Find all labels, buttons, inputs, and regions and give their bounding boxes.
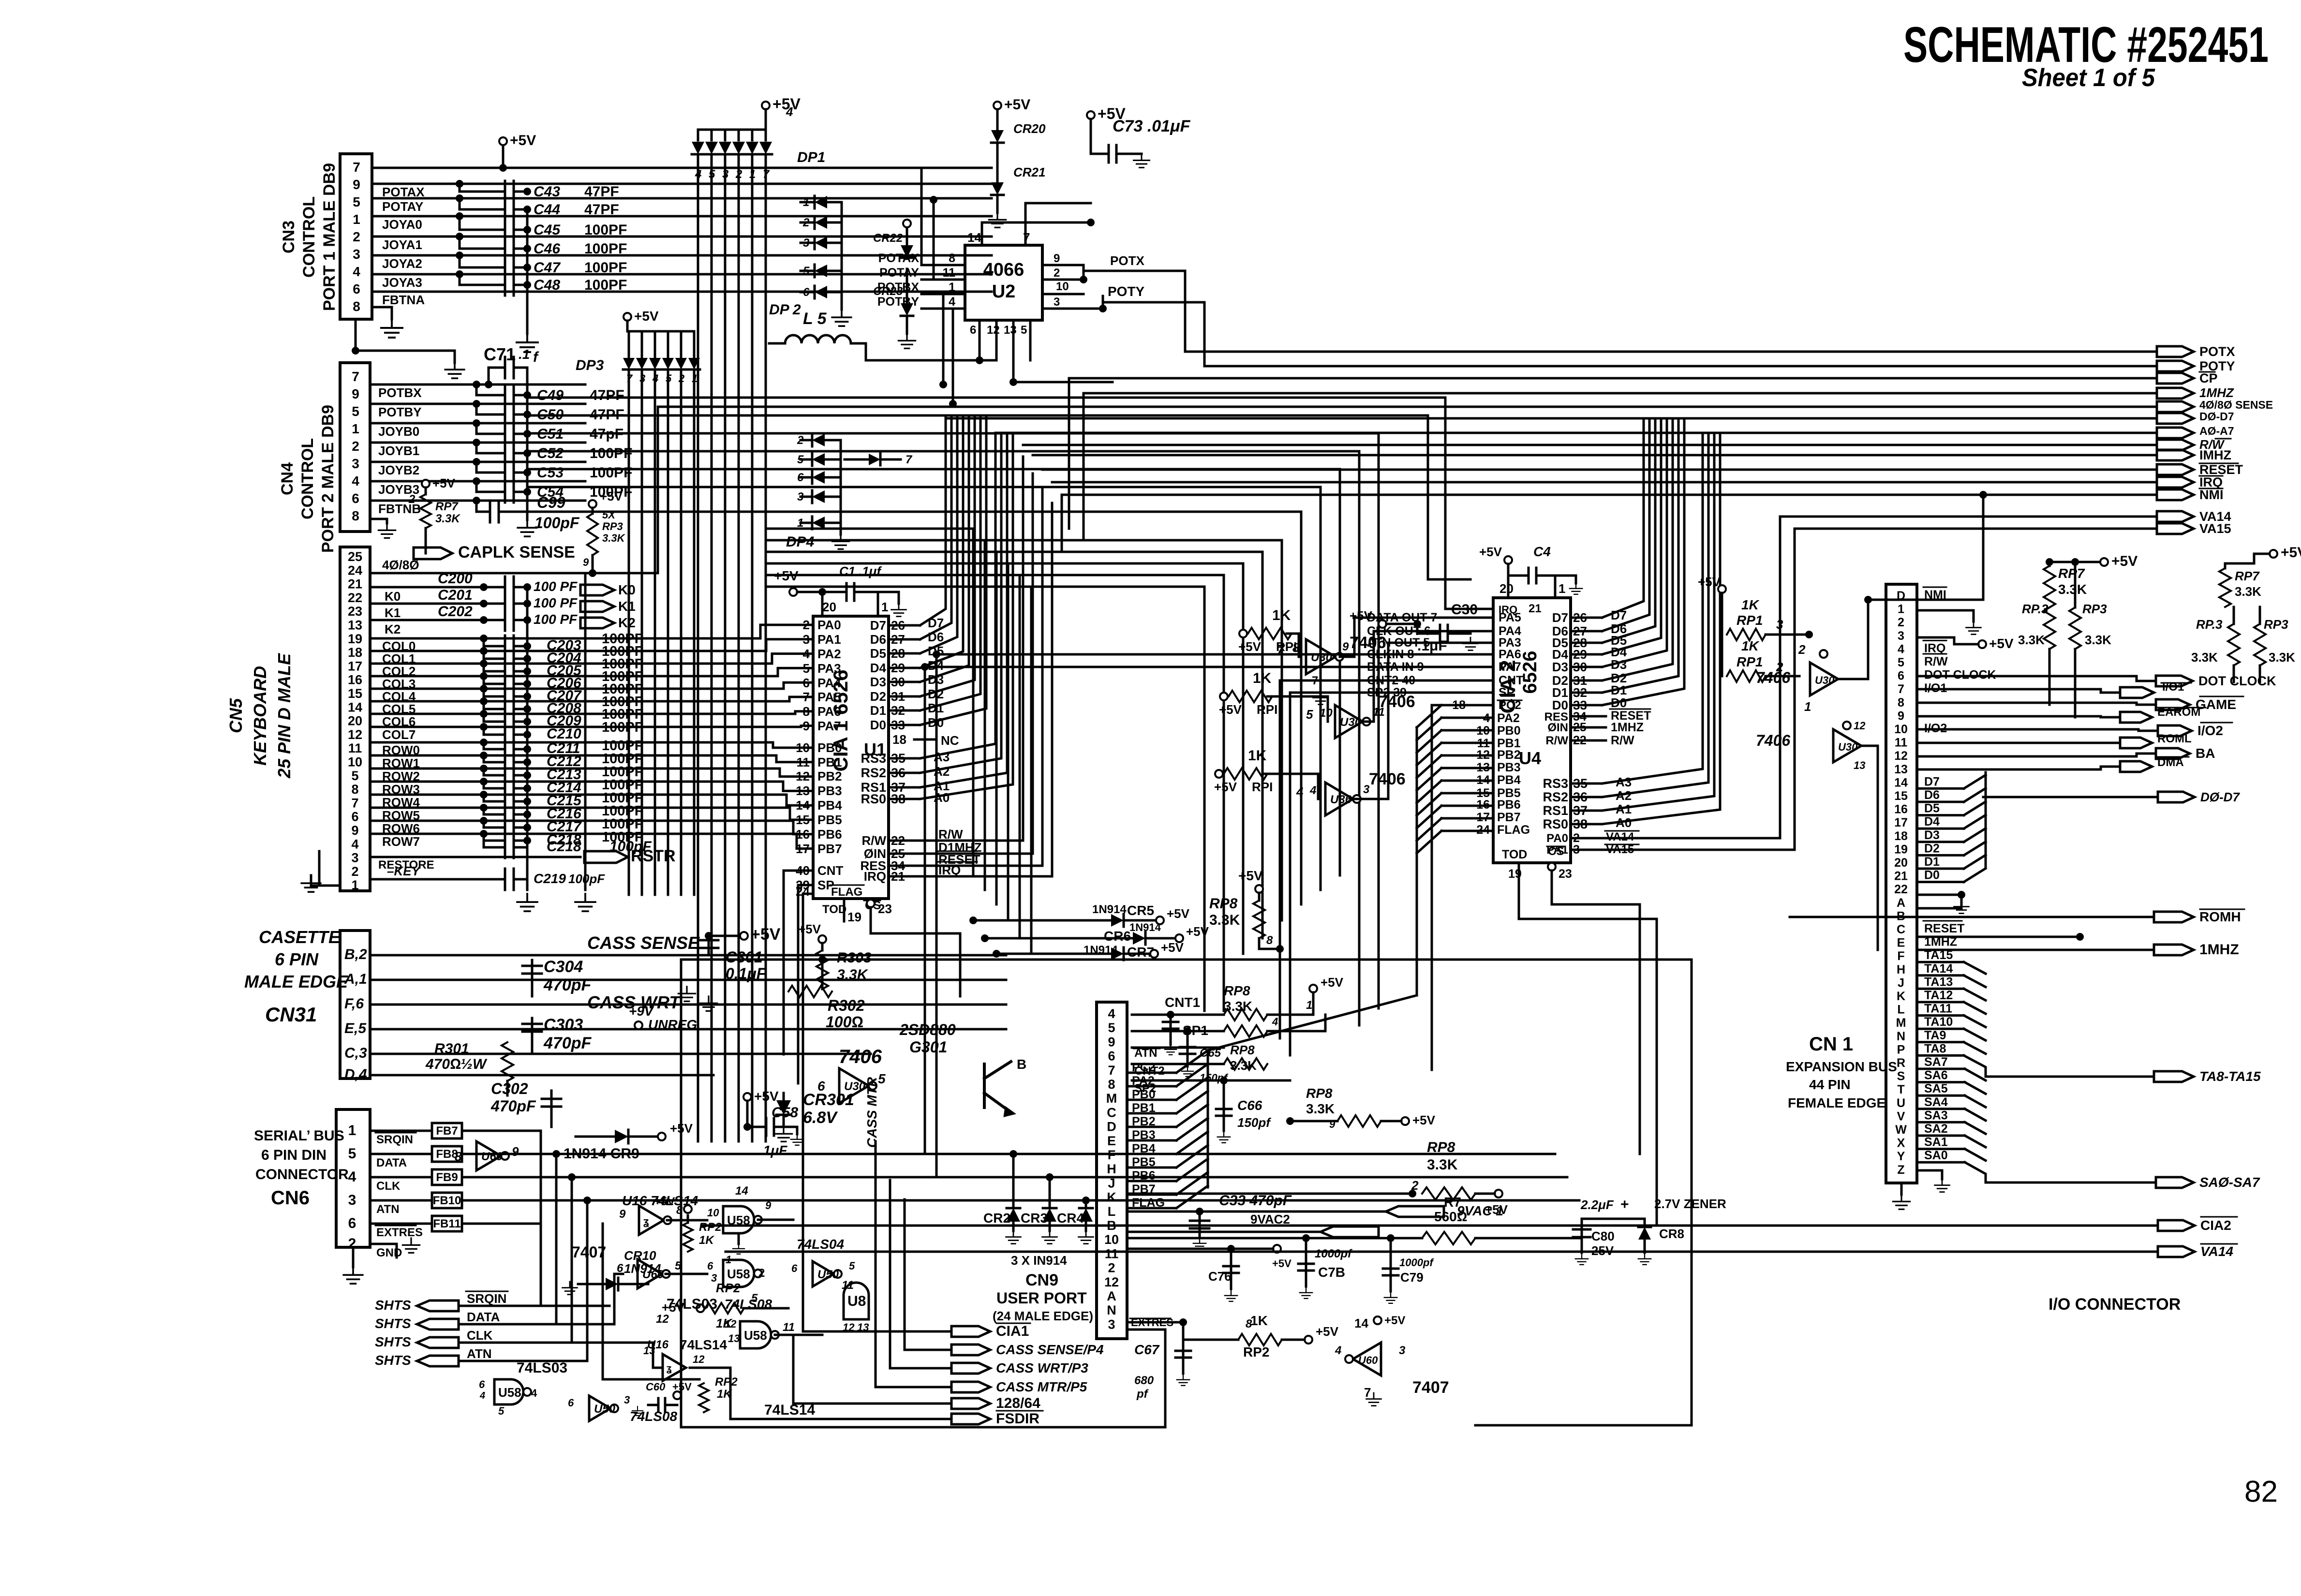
wire bus VA14 bbox=[1780, 516, 2157, 518]
diode DP4 extra bbox=[869, 454, 880, 465]
svg-text:PA6: PA6 bbox=[1499, 648, 1521, 661]
ground DP2 bbox=[841, 292, 843, 310]
wire IRQ riser to bus bbox=[1051, 503, 1054, 876]
svg-text:1: 1 bbox=[348, 1123, 356, 1138]
wire bus NMI bbox=[1062, 494, 2157, 496]
capacitor C51 bbox=[476, 423, 505, 434]
ground CN5 left bbox=[318, 851, 321, 866]
svg-text:+: + bbox=[1620, 1197, 1629, 1212]
svg-text:+5V: +5V bbox=[1238, 639, 1262, 654]
flag EAROM bbox=[2120, 712, 2152, 723]
svg-text:JOYA0: JOYA0 bbox=[382, 217, 422, 232]
svg-text:8: 8 bbox=[353, 299, 360, 314]
wire CN1 row to flag bbox=[1917, 716, 2120, 717]
svg-text:+5V: +5V bbox=[1214, 780, 1237, 794]
svg-text:4: 4 bbox=[1309, 784, 1316, 797]
svg-text:+5V: +5V bbox=[2281, 545, 2301, 561]
wire CN1 SA diagonal bbox=[1965, 1122, 1986, 1134]
wire CN1 TA diagonal bbox=[1964, 1016, 1986, 1027]
wire bus A0-A7 bbox=[995, 432, 2157, 434]
svg-text:I/O CONNECTOR: I/O CONNECTOR bbox=[2049, 1295, 2181, 1314]
wire rail up to CN9 bbox=[1129, 1330, 1165, 1427]
wire row12 bbox=[1127, 1237, 1422, 1240]
svg-text:P: P bbox=[1897, 1043, 1905, 1056]
resistor RP7 3.3K near CAPLK bbox=[422, 480, 430, 488]
resistor RP8 3.3K c SP1 bbox=[1224, 1025, 1267, 1037]
wire CN3 pin8 to ground bbox=[372, 307, 392, 319]
svg-text:100pF: 100pF bbox=[568, 872, 605, 886]
wire CN1 D tooth bbox=[1964, 855, 1986, 869]
svg-text:E: E bbox=[1897, 936, 1905, 950]
wire row10 9VAC1 bbox=[1127, 1211, 1386, 1213]
svg-text:2: 2 bbox=[408, 493, 416, 506]
svg-text:PB3: PB3 bbox=[817, 783, 842, 798]
svg-text:DOT CLOCK: DOT CLOCK bbox=[2198, 674, 2276, 688]
capacitor C52 bbox=[476, 443, 505, 453]
svg-text:1K: 1K bbox=[1253, 670, 1272, 686]
flag SHTS ATN bbox=[417, 1356, 459, 1366]
svg-text:+5V: +5V bbox=[798, 922, 821, 936]
svg-text:1K: 1K bbox=[1250, 1313, 1268, 1328]
svg-text:0.1μF: 0.1μF bbox=[726, 965, 767, 982]
svg-text:CASS SENSE: CASS SENSE bbox=[587, 933, 700, 953]
svg-text:CN3: CN3 bbox=[280, 221, 298, 253]
svg-text:M: M bbox=[1106, 1091, 1117, 1106]
svg-text:17: 17 bbox=[348, 659, 362, 673]
flag R/W bbox=[2157, 440, 2194, 450]
flag VA14 low bbox=[2158, 1246, 2195, 1257]
wire ROW1 with capacitor C212 bbox=[372, 754, 776, 757]
svg-text:RP8: RP8 bbox=[1427, 1139, 1455, 1155]
wire CN1 SA diagonal bbox=[1965, 1162, 1986, 1182]
svg-text:SHTS: SHTS bbox=[375, 1353, 411, 1368]
+5V C73 bbox=[1087, 111, 1095, 119]
svg-text:4: 4 bbox=[1898, 642, 1904, 656]
svg-text:K0: K0 bbox=[385, 589, 401, 604]
resistor RP7 3.3K mid bbox=[2049, 562, 2051, 566]
resistor RP8 3.3K a bbox=[1255, 885, 1263, 893]
wire VA14 low row bbox=[726, 1251, 2158, 1253]
svg-text:TA8: TA8 bbox=[1924, 1042, 1946, 1055]
svg-text:R/W: R/W bbox=[938, 827, 963, 842]
wire CN1 D tooth bbox=[1964, 802, 1986, 815]
nand U58 d bbox=[494, 1379, 523, 1404]
svg-text:T: T bbox=[1897, 1083, 1904, 1096]
svg-text:18: 18 bbox=[348, 645, 362, 660]
wire D0 riser bbox=[920, 416, 986, 725]
wire stair inner horizontals bbox=[766, 528, 973, 530]
inductor L5 bbox=[785, 335, 851, 343]
svg-text:22: 22 bbox=[1894, 883, 1908, 896]
svg-text:TA13: TA13 bbox=[1924, 975, 1953, 989]
wire POTAY bbox=[372, 197, 992, 200]
svg-text:ROW7: ROW7 bbox=[382, 834, 420, 849]
wire EXTRES run bbox=[603, 1224, 699, 1379]
svg-text:U60: U60 bbox=[1358, 1354, 1378, 1366]
svg-text:7: 7 bbox=[1364, 1385, 1371, 1400]
wire JOYB3 bbox=[372, 480, 585, 483]
svg-text:RP.3: RP.3 bbox=[2196, 617, 2223, 632]
svg-text:5: 5 bbox=[1021, 324, 1027, 337]
wire VA15 to flag bbox=[1602, 529, 1795, 850]
svg-text:CASS WRT/P3: CASS WRT/P3 bbox=[996, 1360, 1088, 1375]
svg-text:D7: D7 bbox=[1924, 775, 1940, 788]
wire CN1 SA diagonal bbox=[1965, 1082, 1986, 1094]
svg-text:74LS08: 74LS08 bbox=[630, 1409, 677, 1424]
svg-text:+5V: +5V bbox=[1167, 906, 1190, 921]
svg-text:CONTROL: CONTROL bbox=[298, 438, 317, 519]
ground CN1 pinZ bbox=[1917, 1170, 1942, 1179]
wire ROMH row bbox=[1790, 916, 2154, 918]
svg-text:19: 19 bbox=[348, 632, 362, 646]
svg-text:470pF: 470pF bbox=[543, 976, 592, 994]
svg-text:POTBX: POTBX bbox=[378, 385, 422, 400]
svg-text:PB2: PB2 bbox=[1497, 748, 1521, 762]
wire ROW5 with capacitor C216 bbox=[372, 807, 790, 809]
wire COL2 to PA2 bbox=[772, 654, 813, 664]
wire FLAG down bbox=[803, 893, 813, 895]
wire CN1 row to flag bbox=[1917, 767, 2120, 769]
svg-text:VA14: VA14 bbox=[2200, 1244, 2233, 1259]
svg-text:24: 24 bbox=[348, 563, 362, 577]
svg-text:Z: Z bbox=[1897, 1163, 1904, 1177]
wire bus VA15 bbox=[1795, 528, 2157, 530]
svg-text:C46: C46 bbox=[534, 241, 560, 257]
flag DOT CLOCK bbox=[2156, 676, 2193, 686]
svg-text:D4: D4 bbox=[1924, 815, 1940, 828]
wire stair 10 bbox=[766, 575, 1224, 1011]
svg-text:D: D bbox=[1107, 1120, 1116, 1134]
svg-text:C303: C303 bbox=[544, 1016, 583, 1034]
svg-text:21: 21 bbox=[1529, 602, 1542, 615]
inverter U60 gate cassette read bbox=[476, 1141, 501, 1170]
svg-text:SRQIN: SRQIN bbox=[467, 1291, 506, 1306]
svg-text:FBTNA: FBTNA bbox=[382, 293, 425, 307]
svg-text:E,5: E,5 bbox=[344, 1020, 367, 1036]
svg-text:C7B: C7B bbox=[1318, 1265, 1345, 1280]
svg-text:PA4: PA4 bbox=[817, 676, 841, 690]
svg-text:GAME: GAME bbox=[2196, 697, 2236, 712]
svg-text:4: 4 bbox=[353, 264, 360, 279]
wire 7406 nmi b out bbox=[1861, 746, 1878, 950]
wire POTY to bus bbox=[1204, 302, 2157, 366]
svg-text:2: 2 bbox=[678, 372, 685, 384]
svg-text:CIA1: CIA1 bbox=[996, 1323, 1029, 1339]
svg-text:PA6: PA6 bbox=[817, 704, 841, 719]
svg-text:11: 11 bbox=[348, 741, 362, 755]
wire CLKIN riser bbox=[935, 654, 938, 1177]
svg-text:4: 4 bbox=[949, 295, 955, 309]
svg-text:H: H bbox=[1897, 963, 1905, 976]
svg-text:MALE EDGE: MALE EDGE bbox=[244, 972, 348, 991]
svg-text:TA14: TA14 bbox=[1924, 962, 1953, 975]
svg-text:N: N bbox=[1107, 1303, 1116, 1317]
wire DATA long right bbox=[462, 1153, 1555, 1155]
svg-text:C43: C43 bbox=[534, 184, 560, 200]
svg-text:SAØ-SA7: SAØ-SA7 bbox=[2199, 1175, 2260, 1190]
svg-text:3.3K: 3.3K bbox=[602, 532, 626, 544]
wire COL0 with capacitor C203 bbox=[372, 637, 760, 640]
svg-text:100PF: 100PF bbox=[584, 241, 627, 257]
ground CN6 bbox=[352, 1247, 355, 1267]
svg-text:CR20: CR20 bbox=[1013, 121, 1046, 136]
wire bottom box bbox=[680, 960, 683, 1427]
wires CN1 TA pins fan bbox=[1917, 961, 1964, 963]
wire CN1 TA diagonal bbox=[1964, 1029, 1986, 1040]
wire long vert 3497 bbox=[1691, 960, 1693, 1425]
flag TA8-TA15 bbox=[2154, 1071, 2194, 1082]
svg-text:74LS08: 74LS08 bbox=[725, 1297, 772, 1312]
svg-text:19: 19 bbox=[1894, 842, 1908, 856]
svg-text:PB6: PB6 bbox=[1497, 798, 1521, 812]
svg-text:F: F bbox=[1108, 1148, 1116, 1162]
svg-text:ØIN: ØIN bbox=[1547, 721, 1568, 734]
svg-text:RESET: RESET bbox=[1924, 922, 1964, 935]
resistor R302 100ohm bbox=[788, 986, 832, 997]
wire ROW4 with capacitor C215 bbox=[372, 794, 787, 796]
wire cass mtr run bbox=[876, 1141, 951, 1387]
svg-text:CR4: CR4 bbox=[1057, 1211, 1084, 1226]
svg-text:13: 13 bbox=[1854, 759, 1865, 771]
wire CN1 TA diagonal bbox=[1964, 1055, 1986, 1077]
capacitor C301 0.1uF bbox=[708, 936, 710, 955]
svg-text:R302: R302 bbox=[828, 997, 865, 1014]
svg-text:470Ω: 470Ω bbox=[425, 1056, 461, 1072]
wire PB1 tooth at U4 bbox=[1441, 742, 1493, 744]
flag BA bbox=[2156, 748, 2190, 759]
svg-text:C: C bbox=[1107, 1105, 1116, 1120]
flag K1 bbox=[580, 601, 614, 612]
wire stair 6 bbox=[527, 512, 1301, 904]
wire CN1 D tooth bbox=[1964, 842, 1986, 855]
svg-text:5: 5 bbox=[498, 1405, 505, 1417]
wire JOYB2 bbox=[372, 461, 585, 463]
svg-text:4: 4 bbox=[786, 104, 793, 119]
svg-text:4: 4 bbox=[351, 837, 358, 851]
svg-text:2: 2 bbox=[352, 439, 359, 454]
svg-text:12: 12 bbox=[656, 1313, 669, 1326]
svg-text:RPI: RPI bbox=[1257, 702, 1277, 717]
svg-text:3.3K: 3.3K bbox=[2018, 633, 2045, 647]
ground DP4 bbox=[840, 523, 842, 534]
svg-text:C67: C67 bbox=[1134, 1342, 1160, 1357]
svg-text:CNT: CNT bbox=[817, 863, 844, 878]
svg-text:SA3: SA3 bbox=[1924, 1108, 1948, 1122]
svg-text:6526: 6526 bbox=[1519, 651, 1541, 694]
svg-text:IMHZ: IMHZ bbox=[2199, 448, 2231, 462]
flag VA15 bbox=[2157, 523, 2194, 534]
svg-text:CR3: CR3 bbox=[1021, 1211, 1048, 1226]
svg-text:D0: D0 bbox=[1924, 869, 1940, 882]
svg-text:8: 8 bbox=[1266, 934, 1273, 947]
svg-text:3.3K: 3.3K bbox=[1209, 912, 1240, 928]
capacitor C44 bbox=[460, 198, 505, 209]
svg-text:A: A bbox=[1107, 1289, 1116, 1303]
svg-text:ATN: ATN bbox=[376, 1203, 400, 1216]
wire bus 40/80 bbox=[658, 406, 2157, 408]
svg-text:4: 4 bbox=[1296, 784, 1304, 799]
flag 1MHZ right bbox=[2154, 945, 2194, 955]
svg-text:U30: U30 bbox=[1340, 716, 1362, 729]
svg-text:13: 13 bbox=[1004, 324, 1017, 337]
svg-text:C301: C301 bbox=[726, 948, 763, 966]
svg-text:R/W: R/W bbox=[1611, 734, 1634, 747]
wire PB4 tooth at CN9 bbox=[1127, 1153, 1176, 1155]
svg-text:D7: D7 bbox=[1552, 610, 1568, 625]
svg-text:1N914: 1N914 bbox=[1092, 903, 1127, 916]
wire PB6 tooth at CN9 bbox=[1127, 1180, 1176, 1182]
wire stair 4 bbox=[527, 469, 1340, 875]
wire PC2 tooth at U4 bbox=[1441, 704, 1493, 707]
svg-text:100 PF: 100 PF bbox=[534, 579, 578, 594]
wire top rail from CN3 bbox=[698, 167, 766, 169]
wire CN1 SA flag bbox=[1986, 1182, 2156, 1184]
flag IRQ bbox=[2157, 477, 2194, 488]
wire D5 riser bbox=[920, 416, 957, 653]
wire SP2 feed bbox=[1290, 692, 1493, 694]
wire ROW3 with capacitor C214 bbox=[372, 781, 783, 783]
svg-text:3: 3 bbox=[351, 851, 358, 865]
flag POTX bbox=[2157, 346, 2194, 357]
wire CN1 TA diagonal bbox=[1964, 1042, 1986, 1054]
svg-text:3 X IN914: 3 X IN914 bbox=[1011, 1253, 1067, 1268]
svg-text:J: J bbox=[1108, 1176, 1115, 1190]
wire D3 riser bbox=[920, 416, 969, 682]
svg-text:1: 1 bbox=[881, 600, 888, 614]
svg-text:23: 23 bbox=[878, 901, 892, 916]
wire PC2 tooth at CN9 bbox=[1127, 1072, 1176, 1074]
svg-text:I/O2: I/O2 bbox=[2197, 723, 2223, 738]
wire JOYA3 bbox=[372, 273, 992, 276]
svg-text:IRQ: IRQ bbox=[1924, 641, 1945, 655]
ferrite bead FB10 bbox=[432, 1193, 462, 1208]
flag DMA bbox=[2120, 761, 2152, 772]
svg-text:6: 6 bbox=[970, 324, 976, 337]
svg-text:K2: K2 bbox=[618, 615, 636, 630]
flag 9VAC2 bbox=[1127, 1231, 1321, 1233]
ground CN4 bbox=[378, 523, 395, 538]
svg-text:18: 18 bbox=[892, 732, 906, 747]
svg-text:12: 12 bbox=[1894, 749, 1908, 763]
diode pack DP3 bbox=[623, 313, 631, 321]
svg-text:UNREG: UNREG bbox=[648, 1017, 697, 1032]
wire CN1 D tooth bbox=[1964, 815, 1986, 828]
svg-text:FEMALE EDGE: FEMALE EDGE bbox=[1788, 1095, 1885, 1110]
connector CN31 bbox=[340, 931, 370, 1079]
svg-text:D3: D3 bbox=[1924, 828, 1940, 842]
wire CN1 RESET row bbox=[1917, 936, 2080, 938]
svg-text:TA9: TA9 bbox=[1924, 1029, 1946, 1042]
diodes CR2 CR3 CR4 bbox=[1012, 1154, 1015, 1207]
svg-text:8: 8 bbox=[1898, 696, 1904, 709]
wire PB0 tooth at U4 bbox=[1441, 729, 1493, 732]
svg-text:6: 6 bbox=[1108, 1049, 1115, 1064]
wire POTAX bbox=[372, 183, 992, 185]
svg-text:74LS03: 74LS03 bbox=[517, 1360, 567, 1376]
svg-text:100 PF: 100 PF bbox=[534, 612, 578, 627]
capacitor C45 bbox=[460, 216, 505, 230]
svg-text:R303: R303 bbox=[837, 950, 872, 966]
svg-text:13: 13 bbox=[728, 1332, 740, 1345]
svg-text:C: C bbox=[1897, 923, 1905, 936]
wire cia2 cs down bbox=[1552, 890, 1640, 1154]
connector CN3 bbox=[340, 154, 372, 319]
cap common vertical to ground bbox=[526, 209, 529, 334]
svg-text:5: 5 bbox=[1108, 1020, 1115, 1035]
svg-text:17: 17 bbox=[1894, 816, 1908, 829]
svg-text:CASS SENSE/P4: CASS SENSE/P4 bbox=[996, 1342, 1104, 1357]
ground under CN4 caps bbox=[518, 520, 537, 536]
svg-text:R/W: R/W bbox=[1924, 655, 1948, 668]
svg-text:C58: C58 bbox=[772, 1105, 798, 1121]
wire D1 riser bbox=[920, 416, 980, 710]
wire ROW1 to PB1 bbox=[776, 755, 813, 762]
svg-text:C202: C202 bbox=[438, 604, 473, 620]
flag CAPLK SENSE bbox=[425, 528, 427, 553]
svg-text:10: 10 bbox=[348, 755, 362, 769]
resistor RP1 a bbox=[1239, 630, 1247, 637]
svg-text:6: 6 bbox=[352, 491, 359, 506]
svg-text:G301: G301 bbox=[909, 1038, 947, 1056]
svg-text:SRQIN: SRQIN bbox=[376, 1133, 413, 1146]
svg-text:C66: C66 bbox=[1237, 1098, 1262, 1113]
svg-text:KEYBOARD: KEYBOARD bbox=[250, 666, 270, 766]
resistor RP7 3.3K far right bbox=[2224, 563, 2227, 568]
svg-text:U: U bbox=[1897, 1096, 1905, 1110]
svg-text:6.8V: 6.8V bbox=[803, 1108, 838, 1127]
svg-text:11: 11 bbox=[1105, 1246, 1119, 1261]
svg-text:8: 8 bbox=[351, 782, 358, 797]
svg-text:IRQ: IRQ bbox=[938, 863, 961, 877]
svg-text:3: 3 bbox=[1108, 1317, 1115, 1331]
svg-text:470pF: 470pF bbox=[543, 1034, 592, 1052]
svg-text:+5V: +5V bbox=[1186, 924, 1209, 939]
flag POTY bbox=[2157, 361, 2194, 371]
svg-text:15: 15 bbox=[1894, 789, 1908, 803]
svg-text:DØ-D7: DØ-D7 bbox=[2199, 410, 2234, 423]
svg-text:PA0: PA0 bbox=[1546, 832, 1568, 845]
svg-text:C99: C99 bbox=[537, 494, 565, 511]
ferrite bead FB11 bbox=[432, 1216, 462, 1231]
svg-text:8: 8 bbox=[352, 508, 359, 523]
svg-text:PA1: PA1 bbox=[817, 632, 841, 647]
svg-text:7: 7 bbox=[906, 453, 913, 466]
svg-text:8: 8 bbox=[1108, 1077, 1115, 1092]
wire POTBX bbox=[372, 384, 585, 386]
svg-text:K: K bbox=[1897, 990, 1905, 1003]
wire CNT2 feed bbox=[1280, 680, 1493, 682]
svg-text:CR21: CR21 bbox=[1013, 165, 1045, 179]
svg-text:FSDIR: FSDIR bbox=[996, 1411, 1039, 1427]
svg-text:R301: R301 bbox=[434, 1041, 469, 1057]
svg-text:Sheet 1 of 5: Sheet 1 of 5 bbox=[2022, 64, 2155, 92]
svg-text:ʓ: ʓ bbox=[643, 1215, 649, 1227]
wire FLAG tooth at U4 bbox=[1441, 830, 1493, 832]
svg-text:CAPLK SENSE: CAPLK SENSE bbox=[458, 543, 575, 562]
capacitor C218 bbox=[484, 834, 505, 847]
wire bus 1MHZ bbox=[1033, 454, 2157, 457]
svg-text:5: 5 bbox=[353, 194, 360, 209]
wire PB3 tooth at CN9 bbox=[1127, 1139, 1176, 1142]
svg-text:C302: C302 bbox=[491, 1080, 528, 1097]
svg-text:5: 5 bbox=[1306, 707, 1313, 722]
wire ATN OUT feed bbox=[1353, 643, 1493, 799]
pin 19 TOD stub bbox=[843, 899, 846, 921]
wire bus IRQ bbox=[1052, 481, 2157, 484]
svg-text:R/W: R/W bbox=[1545, 734, 1568, 747]
svg-text:74LS14: 74LS14 bbox=[680, 1337, 727, 1352]
IC U2 4066 bbox=[965, 245, 1042, 320]
